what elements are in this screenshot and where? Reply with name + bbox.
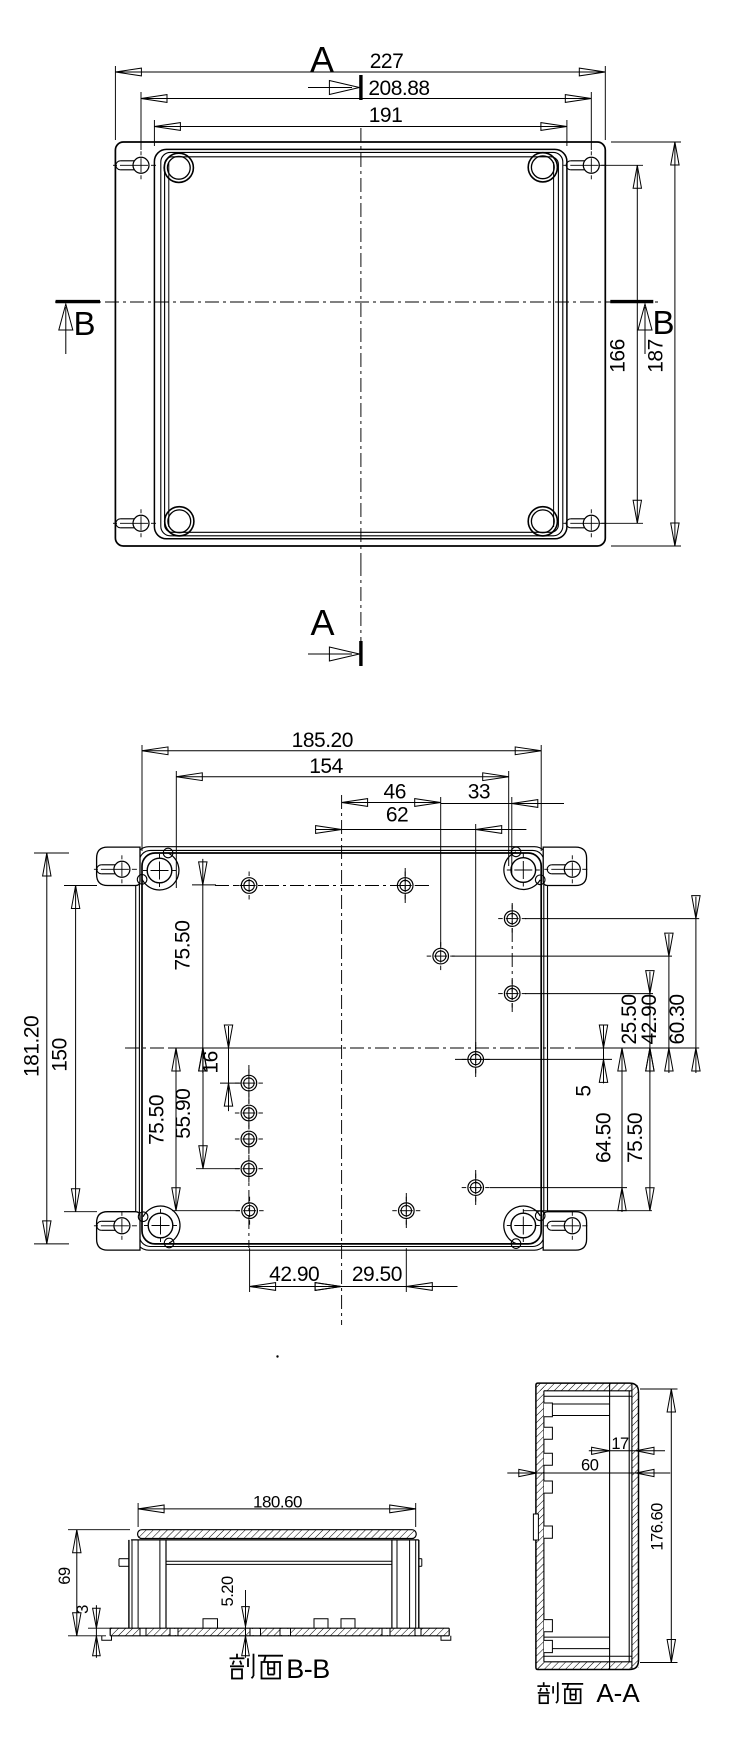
svg-text:75.50: 75.50	[145, 1095, 168, 1145]
keyhole top-right	[583, 157, 599, 173]
keyhole bottom-right	[583, 515, 599, 531]
dim 208.88	[140, 92, 142, 150]
svg-text:55.90: 55.90	[172, 1089, 195, 1139]
svg-text:75.50: 75.50	[172, 921, 195, 971]
section mark A top	[359, 75, 362, 100]
top view: enclosure body outline 227x187	[115, 142, 605, 546]
dim 16	[220, 1082, 241, 1084]
svg-text:69: 69	[56, 1567, 74, 1585]
dim 180.60	[137, 1503, 139, 1527]
dim 3 ref	[88, 1627, 112, 1629]
label section A-A	[543, 1682, 545, 1685]
flange hatched strip	[110, 1628, 449, 1636]
svg-text:42.90: 42.90	[269, 1263, 319, 1286]
dim 75.50 lower-left	[172, 1210, 240, 1212]
svg-text:42.90: 42.90	[638, 994, 661, 1044]
dim 154	[175, 771, 177, 888]
lid screw bottom-left	[165, 507, 194, 536]
svg-text:A: A	[310, 39, 334, 80]
ear tab top-right	[543, 847, 586, 885]
svg-text:181.20: 181.20	[21, 1016, 44, 1077]
outer left notch	[533, 1514, 538, 1540]
dim 29.50 bottom	[341, 1286, 457, 1288]
svg-text:208.88: 208.88	[368, 77, 429, 100]
corner screw boss top-left	[147, 858, 172, 883]
dim 166 right	[599, 164, 643, 166]
bottom inner lines	[544, 1661, 632, 1663]
wall ribs	[544, 1403, 553, 1417]
svg-text:5: 5	[573, 1085, 596, 1096]
dim 181.20 left	[34, 852, 69, 854]
svg-text:180.60: 180.60	[253, 1493, 302, 1512]
lid cross-section hatched bar	[138, 1530, 417, 1539]
hatch bands	[536, 1383, 544, 1669]
ear tab bottom-right	[543, 1212, 586, 1250]
inner wall lines	[543, 1391, 545, 1662]
dim 55.90	[196, 1168, 240, 1170]
short center dashes B2 B12	[404, 868, 406, 903]
svg-text:227: 227	[370, 50, 404, 73]
dim 64.50 right	[621, 1048, 623, 1212]
right wall lines	[418, 1540, 420, 1628]
lid screw bottom-right	[528, 507, 557, 536]
center line extension to A	[360, 562, 362, 664]
wall step tabs	[119, 1558, 129, 1560]
center line horizontal	[125, 1047, 590, 1049]
dim 33	[511, 797, 513, 875]
svg-text:A-A: A-A	[596, 1678, 640, 1708]
dim 5 right	[603, 1025, 605, 1083]
svg-text:60.30: 60.30	[666, 994, 689, 1044]
svg-text:B: B	[652, 304, 674, 341]
dim 227	[114, 66, 116, 140]
dim 150 left	[64, 885, 97, 887]
ear tab top-left	[97, 847, 140, 885]
lid step line 3	[165, 157, 559, 533]
lid outer edge 191 wide	[154, 149, 567, 538]
lid screw top-left	[164, 153, 193, 182]
svg-text:3: 3	[74, 1605, 92, 1614]
svg-text:5.20: 5.20	[219, 1576, 237, 1606]
ref lines right bosses	[525, 918, 699, 920]
svg-text:176.60: 176.60	[649, 1503, 667, 1551]
flange edge line outer	[136, 847, 548, 1250]
body outline 185.2x181.2	[142, 853, 541, 1244]
corner screw boss top-right	[511, 858, 536, 883]
svg-text:60: 60	[581, 1457, 599, 1475]
inner back wall top edge	[166, 1560, 392, 1562]
left wall lines	[128, 1540, 130, 1628]
feet below flange ends	[102, 1636, 112, 1641]
dim 46	[440, 797, 442, 948]
dim 60	[507, 1472, 670, 1474]
flange slots	[140, 1629, 146, 1635]
dim 5.20	[245, 1590, 247, 1627]
center line vertical	[341, 795, 343, 1325]
corner screw boss bottom-left	[148, 1213, 173, 1238]
dim 75.50 upper-left	[192, 884, 216, 886]
svg-text:185.20: 185.20	[292, 729, 353, 752]
svg-text:A: A	[310, 602, 334, 643]
svg-text:B: B	[73, 305, 95, 342]
horizontal center line B-B	[55, 301, 658, 303]
label section B-B	[236, 1654, 238, 1658]
lid screw top-right	[528, 153, 557, 182]
dim 17	[589, 1450, 665, 1452]
svg-text:B-B: B-B	[286, 1654, 330, 1684]
svg-text:62: 62	[386, 804, 408, 827]
boss row center line top	[215, 885, 432, 887]
svg-text:150: 150	[49, 1038, 72, 1072]
svg-text:75.50: 75.50	[624, 1113, 647, 1163]
dim 176.60	[640, 1388, 678, 1390]
dim 75.50 right	[649, 1048, 651, 1211]
top inner lines	[544, 1390, 632, 1392]
ear tab bottom-left	[97, 1212, 140, 1250]
interior bosses	[241, 878, 257, 894]
dim 191	[153, 120, 155, 146]
svg-text:46: 46	[384, 781, 406, 804]
svg-text:33: 33	[468, 781, 490, 804]
flange edge line inner	[139, 850, 543, 1246]
svg-text:17: 17	[611, 1435, 629, 1453]
svg-text:154: 154	[309, 755, 343, 778]
dim 187 right	[611, 141, 681, 143]
dim 25.50 right	[649, 972, 651, 1073]
boss center line B6 row	[455, 1058, 612, 1060]
svg-text:187: 187	[645, 339, 668, 373]
svg-text:29.50: 29.50	[352, 1263, 402, 1286]
bottom flange	[110, 1627, 449, 1629]
corner screw boss bottom-right	[511, 1213, 536, 1238]
dim 62	[475, 824, 477, 1046]
lid inner wall side lines	[168, 162, 170, 527]
keyhole bottom-left	[133, 515, 149, 531]
dim 3	[95, 1605, 97, 1658]
dim 60.30 right	[695, 897, 697, 1073]
boss column center line left	[248, 1065, 250, 1248]
keyholes in ears	[114, 861, 130, 877]
section mark B right	[610, 300, 653, 303]
section mark A bottom	[359, 641, 362, 666]
vertical center line	[360, 128, 362, 562]
outer outline A-A	[536, 1383, 639, 1669]
dim 42.90 bottom	[249, 1248, 251, 1292]
section mark B left	[56, 300, 100, 303]
dim 185.20	[141, 745, 143, 851]
keyhole top-left	[133, 157, 149, 173]
svg-text:191: 191	[369, 104, 403, 127]
floor tabs	[203, 1619, 218, 1628]
lid step line 2	[161, 152, 563, 535]
body top line under lid	[131, 1539, 419, 1541]
svg-text:64.50: 64.50	[593, 1113, 616, 1163]
svg-text:166: 166	[607, 339, 630, 373]
stray dot	[276, 1355, 278, 1357]
dim 69	[68, 1529, 130, 1531]
boss column line right pair	[511, 903, 513, 1012]
dim 42.90 right	[668, 934, 670, 1073]
